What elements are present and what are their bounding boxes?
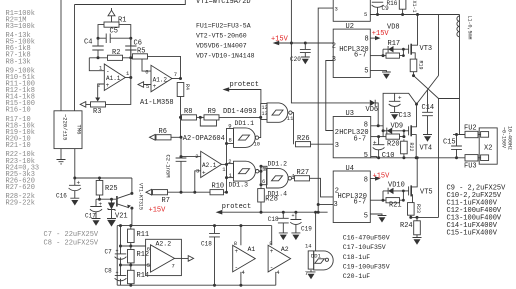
svg-text:protect: protect — [230, 81, 259, 89]
svg-text:TM6: TM6 — [76, 125, 83, 135]
wire +15 top rail — [117, 225, 272, 227]
svg-text:VT1-KT315: VT1-KT315 — [138, 183, 144, 210]
op-amp A1.1 — [104, 64, 125, 91]
svg-text:+15V: +15V — [271, 36, 289, 44]
svg-text:A1-LM358: A1-LM358 — [140, 99, 174, 107]
wire R11 column — [130, 226, 132, 286]
svg-text:C17-10uF35V: C17-10uF35V — [343, 244, 386, 251]
svg-text:7: 7 — [172, 263, 175, 270]
svg-text:A1.1: A1.1 — [106, 75, 121, 82]
wire A1.2 output — [172, 78, 181, 80]
wire R6 to C2/A2.1 — [171, 136, 181, 138]
node dots on rails — [119, 224, 122, 227]
op-amp A2.1 — [201, 151, 222, 177]
SECTION: oscillator A1.1 — [80, 8, 142, 116]
svg-text:+: + — [398, 95, 402, 102]
SECTION: logic gates — [227, 103, 334, 212]
svg-text:5: 5 — [146, 83, 149, 90]
wire TM6 right pin down — [74, 149, 76, 178]
svg-text:6: 6 — [145, 69, 148, 76]
svg-text:5: 5 — [262, 166, 265, 172]
wire bottom rail — [117, 284, 276, 286]
SECTION: power supply TM6 / V21 — [54, 111, 166, 226]
wire raw supply line — [75, 177, 132, 179]
resistor R28 — [258, 189, 265, 202]
wire gate11 output to R26 — [292, 113, 293, 145]
svg-text:X2: X2 — [484, 144, 492, 152]
off-page arrow input R7 — [146, 189, 152, 195]
svg-text:A1: A1 — [248, 246, 256, 253]
svg-text:R8-13k: R8-13k — [6, 58, 31, 66]
svg-text:6-7: 6-7 — [354, 199, 367, 207]
svg-text:6: 6 — [262, 178, 265, 185]
wire DD1.3 output — [259, 170, 261, 172]
wire A2.1 output — [222, 163, 227, 165]
svg-text:C15-1uFX400V: C15-1uFX400V — [447, 229, 498, 237]
SECTION: frame wires — [61, 0, 185, 111]
wire U3 pin5 to VS rail — [371, 157, 377, 158]
wire A1 pins — [240, 226, 242, 286]
svg-text:A2-OPA2604: A2-OPA2604 — [183, 135, 225, 143]
wire protect arrow top — [223, 87, 230, 92]
svg-text:10: 10 — [254, 140, 261, 147]
wire U2 pin3 to U3 pin2 — [326, 61, 333, 131]
svg-text:DD1.2: DD1.2 — [268, 160, 288, 167]
svg-text:-: - — [235, 264, 239, 271]
connector X2 — [479, 128, 497, 164]
svg-text:R17: R17 — [388, 40, 401, 48]
wire protect arrow bottom — [216, 210, 223, 215]
wire DD1.1 output up to R9 node — [259, 117, 261, 137]
svg-text:5: 5 — [364, 11, 367, 18]
SECTION: text blocks — [196, 0, 506, 280]
SECTION: A1.2 buffer — [133, 47, 201, 156]
op-amp A1.2 — [151, 65, 172, 92]
wire R7 line — [168, 191, 211, 193]
wire R5 feedback to A1.2 output — [148, 56, 181, 78]
svg-text:6-7: 6-7 — [354, 135, 367, 143]
wire R8-R9 junction — [197, 116, 205, 118]
svg-text:3: 3 — [334, 201, 338, 209]
off-page arrow input R6 — [150, 135, 156, 141]
svg-text:R20: R20 — [387, 141, 400, 149]
svg-text:2: 2 — [332, 43, 336, 51]
svg-text:2: 2 — [228, 158, 231, 165]
op-amp A2.2 box — [146, 239, 182, 275]
svg-text:VT2-VT5-20n60: VT2-VT5-20n60 — [196, 33, 247, 40]
svg-text:C18: C18 — [268, 216, 279, 223]
gate DD1.2 of pins 12/13 (osc follower) — [261, 104, 267, 120]
wire R9 to gate node — [219, 116, 261, 118]
wire phase column down — [438, 99, 440, 218]
svg-text:8: 8 — [364, 121, 368, 129]
svg-text:2: 2 — [195, 153, 198, 160]
svg-text:3: 3 — [335, 142, 339, 150]
svg-text:10-400Hz: 10-400Hz — [507, 126, 513, 150]
svg-text:C20-1uF: C20-1uF — [343, 273, 370, 280]
wire U4 pin8 arrow — [370, 178, 375, 180]
wire U4 pin5 ground — [370, 214, 386, 216]
wire frame border vertical — [74, 5, 76, 111]
SECTION: comparator A2.1 area — [146, 81, 261, 215]
svg-text:C8 - 22uFX25V: C8 - 22uFX25V — [44, 239, 99, 247]
svg-text:+: + — [292, 213, 295, 219]
svg-text:C8: C8 — [105, 268, 113, 275]
svg-text:C7 - 22uFX25V: C7 - 22uFX25V — [44, 231, 99, 239]
svg-text:DD1.3: DD1.3 — [229, 181, 249, 188]
wire U2 pin8 arrow — [370, 37, 375, 39]
svg-text:VD8: VD8 — [387, 23, 400, 31]
svg-text:5: 5 — [364, 212, 368, 220]
opto driver U1 (top, clipped) — [333, 0, 370, 21]
wire C7 node to pin6 — [121, 245, 146, 247]
svg-text:5: 5 — [364, 152, 368, 160]
wire frame border top — [75, 0, 186, 5]
svg-text:A2: A2 — [281, 246, 289, 253]
wire VD6 bootstrap line — [291, 0, 369, 103]
wire U1 pin5 rail — [370, 14, 459, 16]
svg-text:C16-470uF50V: C16-470uF50V — [343, 235, 390, 242]
off-page arrow A2.2 out — [181, 256, 193, 262]
svg-text:X1-1: X1-1 — [411, 1, 417, 13]
svg-text:R28: R28 — [265, 196, 278, 204]
resistor R22 — [401, 141, 408, 154]
svg-text:U2: U2 — [346, 23, 354, 31]
svg-text:DD1.1: DD1.1 — [235, 120, 255, 127]
svg-text:14: 14 — [305, 243, 312, 250]
wire crossing X upper — [414, 76, 439, 99]
svg-text:R29-22k: R29-22k — [6, 200, 35, 208]
wire R25 to base line — [99, 178, 101, 199]
svg-text:+: + — [106, 82, 110, 89]
svg-text:U3: U3 — [346, 110, 354, 118]
svg-text:C4: C4 — [84, 39, 92, 47]
SECTION: bottom power block — [105, 211, 334, 287]
resistor R23 source VT5 — [408, 203, 415, 216]
svg-text:8: 8 — [229, 136, 232, 143]
wire R28 node line to U4 pin3 — [222, 211, 328, 213]
svg-text:+: + — [153, 83, 157, 90]
wire VS rail — [371, 157, 465, 159]
wire U2 pin5 ground — [370, 70, 391, 72]
svg-text:-: - — [106, 68, 110, 75]
svg-text:VT3: VT3 — [420, 45, 433, 53]
svg-text:8: 8 — [234, 240, 237, 247]
svg-text:R1: R1 — [118, 17, 126, 25]
wire U4 pin3 tap — [318, 204, 333, 206]
svg-text:C10: C10 — [382, 152, 395, 160]
wire L1 down — [439, 37, 460, 99]
resistor R4 — [177, 83, 184, 97]
wire left edge — [116, 226, 118, 286]
SECTION: drivers U1-U4 — [271, 0, 460, 223]
wire R1 left — [98, 25, 104, 39]
op-amp A2 power — [268, 245, 291, 272]
svg-text:protect: protect — [222, 203, 251, 211]
wire R3 right to feedback column — [106, 38, 131, 104]
power module TM6 — [54, 111, 82, 149]
svg-text:+: + — [270, 248, 274, 255]
wire R1 right — [119, 25, 131, 39]
inductor L1 — [459, 15, 461, 17]
wire R10 right to column — [224, 191, 227, 193]
svg-text:+: + — [235, 248, 239, 255]
wire A1.1 non-inv input to R3 wiper — [98, 84, 105, 98]
wire R2 line — [89, 57, 132, 59]
svg-text:R16-10: R16-10 — [6, 107, 31, 115]
transistor VT1 regulator — [116, 196, 118, 207]
wire C7/C8 column — [120, 226, 122, 286]
potentiometer R1 — [104, 22, 119, 27]
svg-text:R21-10: R21-10 — [6, 142, 31, 150]
wire R28 down — [260, 202, 262, 212]
svg-text:R3=100k: R3=100k — [6, 23, 35, 31]
svg-text:VD7-VD10-1N4148: VD7-VD10-1N4148 — [196, 53, 255, 60]
svg-text:C7: C7 — [105, 249, 113, 256]
wire source node to phase column — [411, 216, 439, 218]
svg-text:R25: R25 — [105, 185, 118, 193]
wire U1 pin3 riser — [318, 8, 333, 212]
wire A1.1 output — [125, 77, 131, 79]
wire C13 top to pin8 node — [383, 93, 395, 126]
svg-text:R19: R19 — [418, 61, 424, 70]
svg-text:9: 9 — [228, 123, 231, 130]
svg-text:3: 3 — [335, 6, 338, 13]
svg-text:5: 5 — [147, 262, 150, 269]
svg-text:C16: C16 — [56, 193, 67, 200]
SECTION: left resistor value list — [6, 10, 99, 248]
wire bridge vertical top — [438, 15, 440, 76]
svg-text:A1.2: A1.2 — [153, 77, 168, 84]
svg-text:R10: R10 — [212, 182, 225, 190]
wire R4 to R8 line — [181, 97, 201, 157]
svg-text:C18-1uF: C18-1uF — [343, 254, 370, 261]
wire output column — [226, 144, 228, 193]
resistor R25 — [96, 181, 103, 196]
svg-text:A2.2: A2.2 — [156, 240, 172, 247]
wire to A1.1 inverting input — [89, 58, 104, 71]
resistor R19 source VT3 — [410, 59, 417, 72]
svg-text:R22: R22 — [408, 143, 414, 152]
resistor R11 — [128, 229, 135, 242]
svg-text:+: + — [373, 139, 377, 146]
node dots R1/C4/C5/C6 — [97, 37, 100, 40]
svg-text:5: 5 — [364, 67, 368, 75]
svg-text:VD6: VD6 — [366, 106, 379, 114]
svg-text:~0-150V: ~0-150V — [501, 127, 507, 148]
off-page arrow at A1.2 pin5 — [138, 82, 151, 88]
svg-text:+: + — [202, 169, 206, 176]
svg-text:R7: R7 — [162, 197, 170, 205]
svg-text:V21: V21 — [115, 213, 128, 221]
svg-text:VD9: VD9 — [391, 123, 404, 131]
svg-text:C19: C19 — [301, 225, 312, 232]
wire collector up to raw line — [131, 178, 133, 193]
wire R27 to U4 pin2 — [310, 178, 334, 197]
potentiometer R3 — [91, 102, 106, 107]
wire tap to A1.2 pin6 — [142, 59, 151, 71]
svg-text:R27-620: R27-620 — [6, 184, 35, 192]
wire emitter down to +15 rail — [131, 208, 133, 226]
svg-text:A2.1: A2.1 — [202, 162, 217, 169]
wire DD1.3 out column — [260, 166, 262, 188]
wire A2 pins — [272, 226, 276, 286]
wire U3 pin8 — [371, 126, 383, 131]
svg-text:C18: C18 — [201, 240, 212, 247]
svg-text:VD5VD6-1N4007: VD5VD6-1N4007 — [196, 43, 247, 50]
svg-text:C15: C15 — [443, 139, 456, 147]
gate DD1.3 — [227, 164, 234, 178]
svg-text:FU3: FU3 — [464, 162, 477, 170]
svg-text:R4: R4 — [184, 84, 190, 90]
resistor R14 — [128, 270, 135, 283]
svg-text:R16: R16 — [387, 0, 398, 7]
svg-text:C5: C5 — [110, 28, 118, 36]
wire left vertical bus — [60, 0, 62, 111]
svg-text:-: - — [270, 264, 274, 271]
svg-text:VT1=WTC19A/2D: VT1=WTC19A/2D — [196, 0, 251, 6]
wire base line — [96, 198, 116, 200]
resistor R12 — [128, 250, 135, 263]
svg-text:C2-1n5M: C2-1n5M — [165, 155, 172, 178]
svg-text:C19-100uF35V: C19-100uF35V — [343, 263, 390, 270]
svg-text:8: 8 — [365, 35, 369, 43]
svg-text:R11: R11 — [137, 231, 150, 239]
svg-text:C13: C13 — [399, 112, 412, 120]
svg-text:DD1-4093: DD1-4093 — [223, 108, 257, 116]
svg-text:FU1=FU2=FU3-5A: FU1=FU2=FU3-5A — [196, 23, 251, 30]
SECTION: right power stage — [370, 15, 512, 245]
svg-text:VT4: VT4 — [420, 145, 433, 153]
wire to A2.1 non-inv input — [195, 171, 201, 192]
wire loop under R9 — [200, 117, 216, 126]
svg-text:VD10: VD10 — [388, 181, 405, 189]
ground TM6 left — [57, 149, 66, 164]
svg-text:7: 7 — [174, 71, 177, 78]
svg-text:+15V: +15V — [149, 206, 167, 214]
svg-text:~220/±15: ~220/±15 — [62, 114, 69, 140]
resistor R7 — [153, 190, 168, 195]
svg-text:6-7: 6-7 — [354, 51, 367, 59]
svg-text:R24: R24 — [400, 222, 413, 230]
svg-text:R23: R23 — [415, 204, 421, 213]
op-amp A1 power — [233, 245, 256, 272]
svg-text:11: 11 — [287, 115, 294, 122]
svg-text:U4: U4 — [346, 165, 354, 173]
svg-text:6: 6 — [147, 246, 150, 253]
svg-text:VT5: VT5 — [420, 189, 433, 197]
off-page arrow at R3 — [80, 102, 90, 108]
wire C8 node to pin5 — [121, 264, 151, 266]
svg-text:L1-0,5mH: L1-0,5mH — [467, 16, 473, 40]
svg-text:3: 3 — [196, 167, 199, 174]
wire R26 to U3 pin3 — [311, 143, 334, 145]
svg-text:3: 3 — [332, 56, 336, 64]
svg-text:R3: R3 — [93, 108, 101, 116]
wire to R27 — [292, 177, 295, 179]
svg-text:8: 8 — [364, 176, 368, 184]
